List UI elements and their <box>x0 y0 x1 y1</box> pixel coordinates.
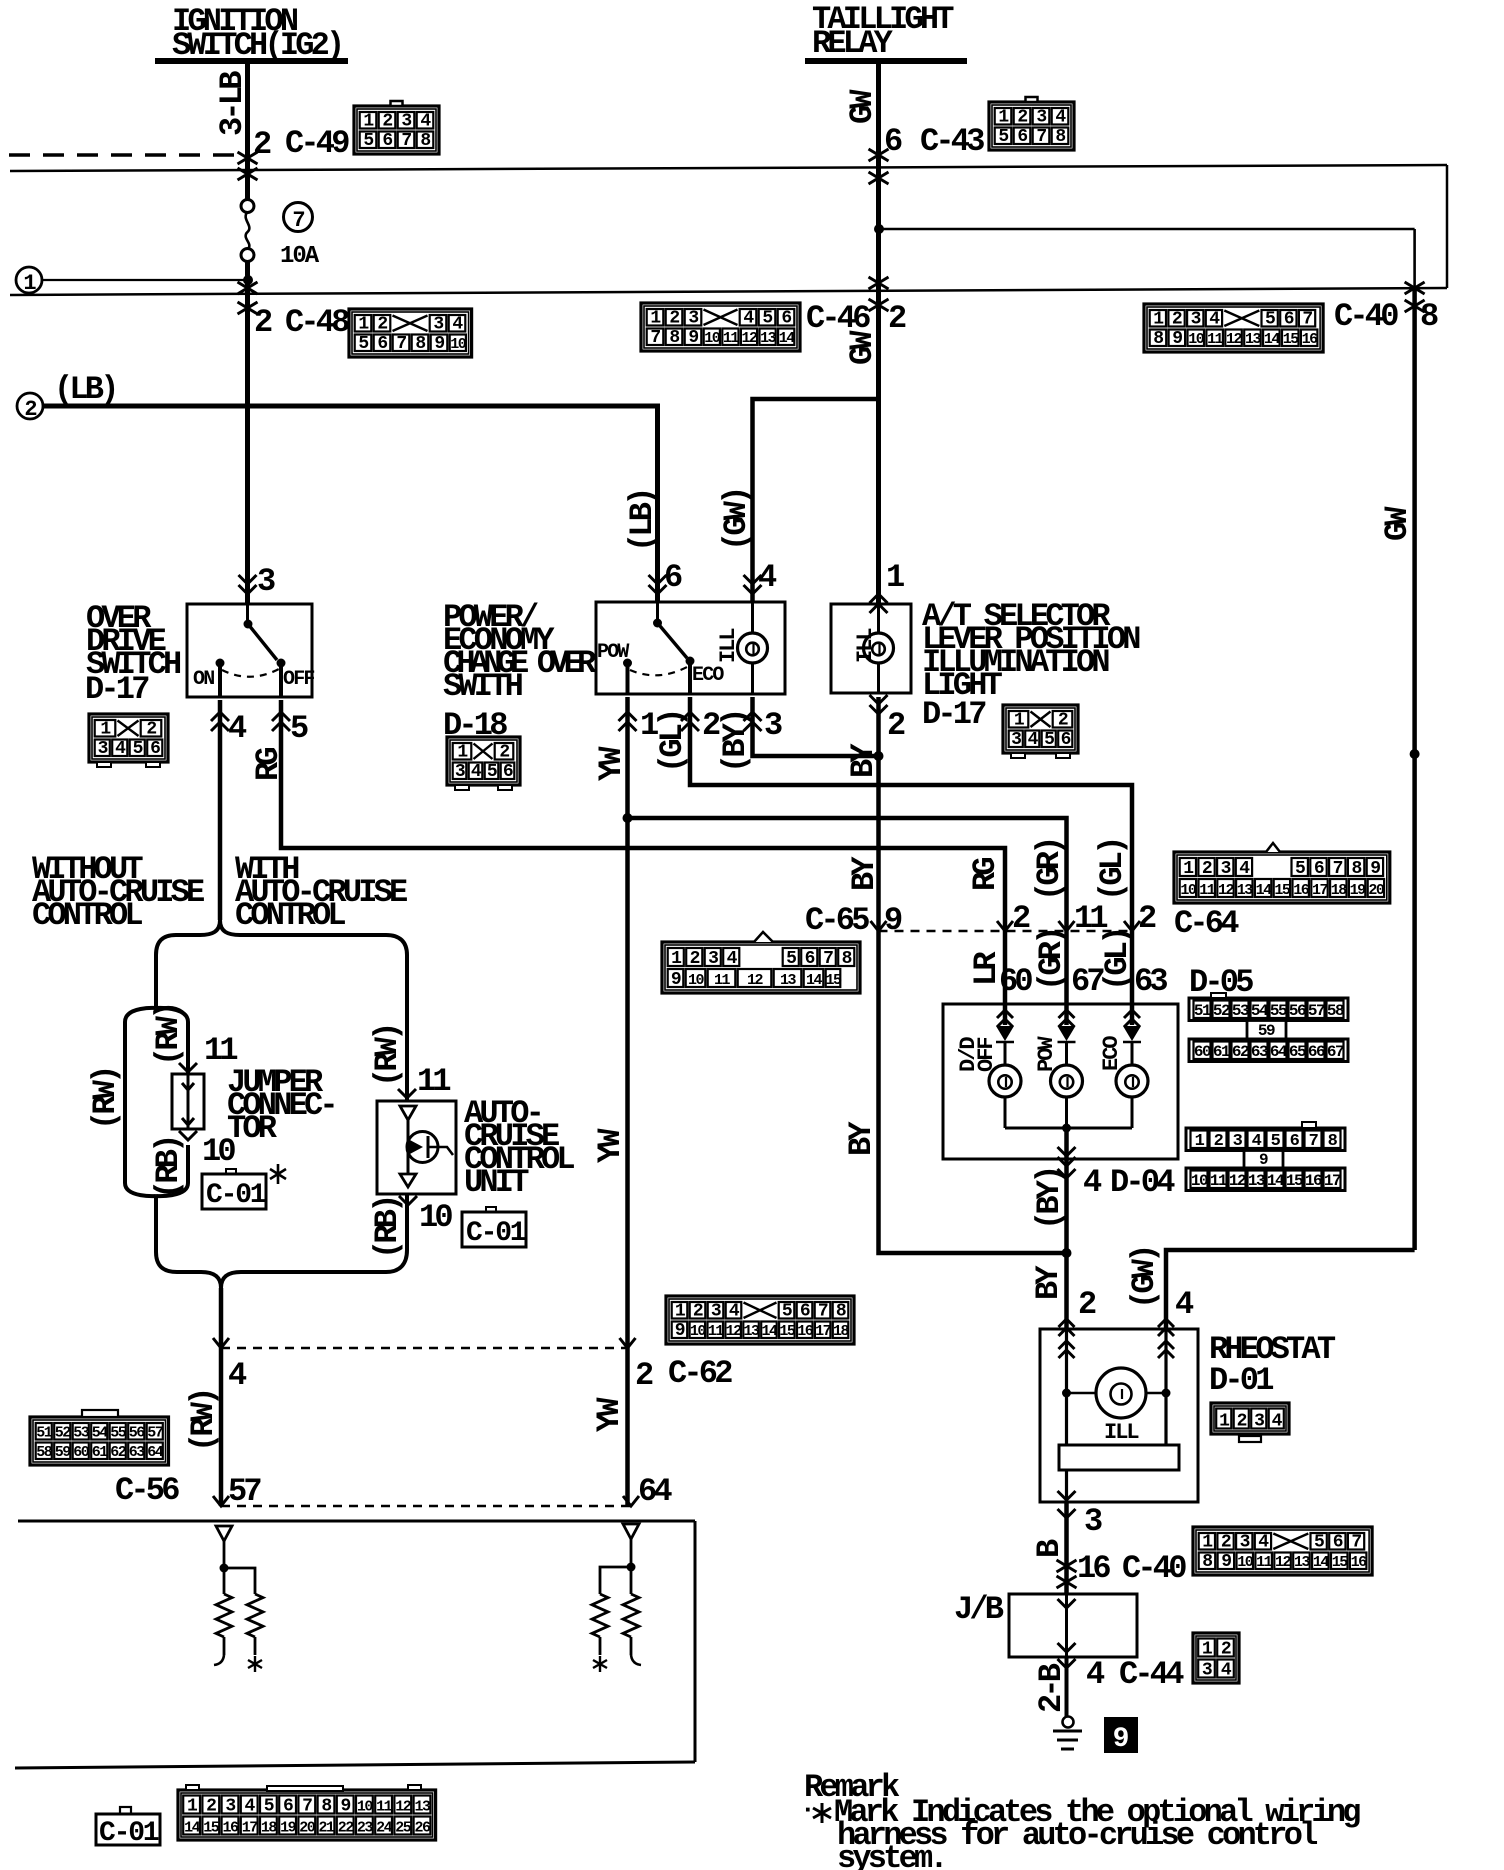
svg-text:3: 3 <box>708 949 718 969</box>
svg-text:2: 2 <box>1172 310 1182 330</box>
svg-text:6: 6 <box>382 131 392 151</box>
wire GL into D-05 <box>1130 931 1135 1025</box>
svg-text:60: 60 <box>1194 1043 1211 1061</box>
svg-text:3: 3 <box>1233 1132 1243 1151</box>
svg-text:9: 9 <box>1113 1724 1130 1755</box>
svg-text:12: 12 <box>395 1799 412 1816</box>
svg-text:11: 11 <box>376 1799 393 1816</box>
svg-text:1: 1 <box>886 559 904 596</box>
svg-text:(BY): (BY) <box>717 711 754 773</box>
connector icon C-43 <box>989 102 1074 150</box>
svg-text:ECO: ECO <box>692 664 724 687</box>
svg-text:63: 63 <box>1134 963 1167 1000</box>
wire GW from taillight relay <box>876 61 881 604</box>
component box C-01 right <box>462 1212 526 1247</box>
svg-text:5: 5 <box>998 127 1008 147</box>
svg-text:8: 8 <box>415 334 425 354</box>
node circle-1 <box>16 267 42 293</box>
svg-text:17: 17 <box>1312 882 1328 899</box>
junction block J/B <box>1009 1594 1137 1657</box>
svg-text:YW: YW <box>592 1128 629 1163</box>
jumper connector box <box>172 1074 204 1129</box>
svg-text:6: 6 <box>781 309 791 329</box>
wire BY to rheostat pin2 <box>1064 1253 1069 1329</box>
overdrive internal wires <box>218 663 222 697</box>
svg-text:5: 5 <box>1295 859 1305 879</box>
svg-text:8: 8 <box>420 131 430 151</box>
svg-text:7: 7 <box>292 208 304 233</box>
svg-text:10: 10 <box>1191 1172 1208 1190</box>
overdrive switch blade <box>246 604 249 624</box>
svg-text:7: 7 <box>1351 1533 1361 1553</box>
wire GW right vertical <box>1412 289 1417 1250</box>
connector icon D-05 pins 51-67 <box>1189 998 1348 1021</box>
svg-text:6: 6 <box>1314 859 1324 879</box>
svg-text:(BY): (BY) <box>1031 1168 1068 1230</box>
svg-text:59: 59 <box>1258 1022 1275 1040</box>
svg-text:3-LB: 3-LB <box>214 71 251 136</box>
svg-text:56: 56 <box>129 1425 146 1442</box>
entry marks pin1 A/T <box>870 594 888 613</box>
svg-text:57: 57 <box>147 1425 163 1442</box>
C-65 crossing arrows <box>871 921 887 931</box>
connector crossing marks C-43 <box>869 149 889 161</box>
svg-text:2: 2 <box>690 949 700 969</box>
svg-text:11: 11 <box>417 1063 450 1100</box>
svg-text:2: 2 <box>1237 1412 1247 1432</box>
svg-text:BY: BY <box>846 856 883 891</box>
rheostat box D-01 <box>1040 1329 1198 1502</box>
svg-text:(LB): (LB) <box>624 490 661 552</box>
svg-text:14: 14 <box>761 1323 778 1340</box>
svg-text:12: 12 <box>726 1323 743 1340</box>
wire merged RW down <box>219 1288 224 1506</box>
svg-text:(RW): (RW) <box>185 1390 222 1452</box>
svg-text:3: 3 <box>433 315 443 335</box>
svg-text:5: 5 <box>133 739 143 759</box>
svg-text:13: 13 <box>760 330 777 347</box>
wire YW from power pin1 <box>625 697 630 1506</box>
connector icon C-48 <box>349 309 472 357</box>
jumper loop left branch <box>125 1008 156 1196</box>
fuse 7 symbol <box>246 165 249 200</box>
dashed connector line C-62 <box>221 1347 628 1350</box>
svg-text:11: 11 <box>1256 1554 1273 1571</box>
svg-text:6: 6 <box>884 123 902 160</box>
connector icon C-65 <box>662 942 860 993</box>
svg-text:54: 54 <box>92 1425 109 1442</box>
svg-text:1: 1 <box>1195 1132 1205 1151</box>
power dashed arc <box>630 667 687 675</box>
svg-text:GW: GW <box>844 89 881 124</box>
svg-text:16: 16 <box>1293 882 1310 899</box>
overdrive contacts ON OFF <box>216 659 225 668</box>
svg-text:ECO: ECO <box>1099 1036 1124 1071</box>
svg-text:7: 7 <box>1036 127 1046 147</box>
svg-text:C-49: C-49 <box>285 125 349 162</box>
svg-text:10: 10 <box>688 972 705 989</box>
svg-text:2: 2 <box>669 309 679 329</box>
svg-text:63: 63 <box>129 1444 146 1461</box>
svg-text:5: 5 <box>290 710 308 747</box>
entry marks pin6 <box>649 575 667 594</box>
wire GW to rheostat pin4 <box>1166 1250 1415 1329</box>
svg-text:14: 14 <box>779 330 796 347</box>
svg-text:60: 60 <box>999 963 1032 1000</box>
svg-text:67: 67 <box>1071 963 1104 1000</box>
svg-text:24: 24 <box>376 1820 393 1837</box>
svg-text:11: 11 <box>714 972 731 989</box>
svg-text:14: 14 <box>1267 1172 1285 1190</box>
svg-text:19: 19 <box>1350 882 1367 899</box>
svg-text:D-04: D-04 <box>1110 1164 1175 1201</box>
connector icon D-18 <box>447 737 520 785</box>
svg-text:57: 57 <box>228 1473 261 1510</box>
svg-text:11: 11 <box>1210 1172 1227 1190</box>
svg-text:6: 6 <box>503 762 513 782</box>
svg-text:C-43: C-43 <box>920 123 984 160</box>
svg-text:15: 15 <box>1332 1554 1349 1571</box>
svg-text:TOR: TOR <box>227 1110 278 1147</box>
wire (BY) branch from power pin3 <box>753 697 879 756</box>
svg-text:64: 64 <box>638 1473 672 1510</box>
svg-text:2: 2 <box>253 126 271 163</box>
svg-text:2: 2 <box>1078 1286 1096 1323</box>
svg-text:2: 2 <box>1058 711 1068 731</box>
fuse number circle 7 <box>284 203 313 232</box>
connector icon D-04 pins 1-17 <box>1186 1128 1345 1151</box>
svg-text:11: 11 <box>1199 882 1216 899</box>
svg-text:15: 15 <box>203 1820 220 1837</box>
svg-text:11: 11 <box>723 330 740 347</box>
svg-text:4: 4 <box>1252 1132 1262 1151</box>
D-05 lamp common bus <box>1005 1127 1132 1130</box>
svg-text:6: 6 <box>1061 730 1071 750</box>
svg-text:3: 3 <box>688 309 698 329</box>
svg-text:16: 16 <box>1351 1554 1368 1571</box>
brace split top <box>156 920 220 1008</box>
svg-text:2: 2 <box>1012 900 1030 937</box>
svg-text:10: 10 <box>1237 1554 1254 1571</box>
svg-text:5: 5 <box>1314 1533 1324 1553</box>
svg-text:CONTROL: CONTROL <box>32 897 142 934</box>
ignition switch terminal bar <box>155 58 348 64</box>
svg-text:9: 9 <box>341 1797 351 1817</box>
rheostat output wire <box>1065 1470 1068 1502</box>
svg-text:16: 16 <box>797 1323 814 1340</box>
svg-text:C-40: C-40 <box>1122 1550 1186 1587</box>
optional star mark left <box>270 1164 286 1184</box>
svg-text:12: 12 <box>1226 331 1243 348</box>
svg-text:7: 7 <box>650 328 660 348</box>
svg-text:7: 7 <box>1309 1132 1319 1151</box>
svg-text:9: 9 <box>1370 859 1380 879</box>
svg-text:3: 3 <box>1240 1533 1250 1553</box>
wire pin5 RG to right <box>281 700 1005 931</box>
svg-text:3: 3 <box>711 1302 721 1322</box>
svg-text:5: 5 <box>363 131 373 151</box>
svg-text:2-B: 2-B <box>1033 1663 1070 1713</box>
svg-text:66: 66 <box>1308 1043 1325 1061</box>
svg-text:1: 1 <box>23 271 36 296</box>
svg-text:2: 2 <box>24 397 36 422</box>
svg-text:6: 6 <box>800 1302 810 1322</box>
svg-text:(GW): (GW) <box>1126 1247 1163 1309</box>
connector icon C-49 <box>354 106 439 154</box>
svg-text:16: 16 <box>1305 1172 1322 1190</box>
connector icon C-01 <box>178 1790 436 1840</box>
svg-text:2: 2 <box>1138 900 1156 937</box>
brace merge bottom <box>156 1196 221 1288</box>
svg-text:62: 62 <box>110 1444 127 1461</box>
svg-text:2: 2 <box>693 1302 703 1322</box>
svg-text:2: 2 <box>499 743 509 763</box>
power switch contacts <box>623 659 632 668</box>
svg-text:13: 13 <box>744 1323 761 1340</box>
svg-text:7: 7 <box>1333 859 1343 879</box>
wire GW branch to pin4 power switch <box>753 399 880 602</box>
wire from circle-1 to fuse junction <box>42 279 248 281</box>
svg-text:(RB): (RB) <box>150 1137 187 1199</box>
svg-text:8: 8 <box>321 1797 331 1817</box>
power/economy switch box D-18 <box>596 602 785 694</box>
svg-text:5: 5 <box>1265 310 1275 330</box>
node circle-2 (LB) <box>17 393 43 419</box>
connector icon D-17 A/T <box>1003 705 1078 753</box>
svg-text:58: 58 <box>1327 1002 1344 1020</box>
svg-text:9: 9 <box>675 1321 685 1341</box>
svg-text:11: 11 <box>1207 331 1224 348</box>
svg-text:3: 3 <box>764 707 782 744</box>
svg-text:2: 2 <box>146 720 156 740</box>
wire BY down from A/T <box>876 697 881 931</box>
remark text <box>800 1769 1360 1870</box>
svg-text:8: 8 <box>1153 329 1163 349</box>
svg-text:6: 6 <box>283 1797 293 1817</box>
svg-text:54: 54 <box>1251 1002 1269 1020</box>
svg-text:51: 51 <box>36 1425 53 1442</box>
svg-text:26: 26 <box>414 1820 431 1837</box>
svg-text:9: 9 <box>1172 329 1182 349</box>
svg-text:7: 7 <box>1302 310 1312 330</box>
svg-text:8: 8 <box>1420 298 1438 335</box>
junction dot BY/D-04 <box>1062 1248 1072 1258</box>
exit marks pin2 A/T <box>870 695 888 714</box>
svg-text:5: 5 <box>358 334 368 354</box>
svg-text:53: 53 <box>73 1425 90 1442</box>
svg-text:55: 55 <box>1270 1002 1287 1020</box>
wire LR into D-05 <box>1003 931 1008 1025</box>
svg-text:64: 64 <box>1270 1043 1288 1061</box>
svg-text:8: 8 <box>669 328 679 348</box>
svg-text:5: 5 <box>487 762 497 782</box>
svg-text:6: 6 <box>1290 1132 1300 1151</box>
svg-text:BY: BY <box>843 1121 880 1156</box>
svg-text:6: 6 <box>1333 1533 1343 1553</box>
svg-text:(GL): (GL) <box>654 711 691 773</box>
svg-text:16: 16 <box>222 1820 239 1837</box>
svg-text:2: 2 <box>635 1357 653 1394</box>
svg-text:5: 5 <box>762 309 772 329</box>
svg-text:C-65: C-65 <box>805 902 869 939</box>
svg-text:3: 3 <box>1221 859 1231 879</box>
connector icon C-40 bottom <box>1193 1527 1372 1575</box>
svg-text:52: 52 <box>1213 1002 1230 1020</box>
power switch blade <box>656 602 659 623</box>
overdrive switch box D-17 <box>187 604 312 697</box>
wire (GR) branch <box>628 818 1067 931</box>
svg-text:POW: POW <box>597 641 629 664</box>
power internal wires <box>626 663 630 694</box>
connector icon C-44 <box>1193 1633 1239 1683</box>
component box C-01 bottom <box>96 1814 160 1845</box>
overdrive dashed arc <box>222 669 279 677</box>
svg-text:14: 14 <box>1256 882 1273 899</box>
svg-text:15: 15 <box>779 1323 796 1340</box>
svg-text:23: 23 <box>357 1820 374 1837</box>
svg-text:C-01: C-01 <box>206 1180 266 1211</box>
svg-text:61: 61 <box>1213 1043 1230 1061</box>
svg-text:10: 10 <box>419 1199 452 1236</box>
svg-text:6: 6 <box>377 334 387 354</box>
svg-text:(RW): (RW) <box>87 1068 124 1130</box>
svg-text:14: 14 <box>1313 1554 1330 1571</box>
svg-text:12: 12 <box>1229 1172 1246 1190</box>
svg-text:2: 2 <box>206 1797 216 1817</box>
auto-cruise internal symbol <box>400 1106 416 1120</box>
wire right branch down <box>405 1194 409 1250</box>
svg-text:6: 6 <box>150 739 160 759</box>
svg-text:3: 3 <box>1036 108 1046 128</box>
svg-text:C-40: C-40 <box>1334 298 1398 335</box>
junction dot fuse/circle-1 <box>243 275 253 285</box>
svg-text:60: 60 <box>73 1444 90 1461</box>
dashed connector line C-56 <box>221 1505 631 1508</box>
svg-text:67: 67 <box>1327 1043 1344 1061</box>
svg-text:8: 8 <box>1328 1132 1338 1151</box>
svg-text:D-17: D-17 <box>85 671 149 708</box>
svg-text:9: 9 <box>434 334 444 354</box>
svg-text:25: 25 <box>395 1820 412 1837</box>
svg-text:13: 13 <box>1294 1554 1311 1571</box>
svg-text:9: 9 <box>671 970 681 990</box>
svg-text:(RW): (RW) <box>150 1004 187 1066</box>
svg-text:8: 8 <box>1202 1552 1212 1572</box>
svg-text:63: 63 <box>1251 1043 1268 1061</box>
svg-text:(RB): (RB) <box>369 1197 406 1259</box>
svg-text:8: 8 <box>836 1302 846 1322</box>
svg-text:7: 7 <box>823 949 833 969</box>
indicator box D-05 <box>943 1004 1178 1159</box>
svg-text:(GL): (GL) <box>1094 839 1131 901</box>
ECU box outline <box>18 1520 695 1523</box>
entry marks pin4 <box>744 575 762 594</box>
svg-text:5: 5 <box>782 1302 792 1322</box>
svg-text:(GW): (GW) <box>718 489 755 551</box>
svg-text:(GL): (GL) <box>1099 929 1136 991</box>
svg-text:5: 5 <box>264 1797 274 1817</box>
svg-text:22: 22 <box>338 1820 355 1837</box>
svg-text:14: 14 <box>184 1820 201 1837</box>
svg-text:(RW): (RW) <box>369 1025 406 1087</box>
svg-text:17: 17 <box>1324 1172 1341 1190</box>
taillight relay terminal bar <box>805 58 967 64</box>
svg-text:BY: BY <box>1030 1265 1067 1300</box>
svg-text:10: 10 <box>690 1323 707 1340</box>
svg-text:2: 2 <box>887 707 905 744</box>
wire 3-LB from ignition switch <box>245 61 250 199</box>
junction dot GW branch to C-40 <box>874 224 884 234</box>
connector icon D-01 <box>1211 1403 1289 1434</box>
svg-text:6: 6 <box>1017 127 1027 147</box>
svg-text:3: 3 <box>257 563 275 600</box>
page reference box 9 <box>1104 1717 1138 1753</box>
svg-text:58: 58 <box>36 1444 53 1461</box>
svg-text:12: 12 <box>1275 1554 1292 1571</box>
svg-text:10A: 10A <box>280 243 320 270</box>
svg-text:16: 16 <box>1302 331 1319 348</box>
svg-text:7: 7 <box>396 334 406 354</box>
svg-text:19: 19 <box>280 1820 297 1837</box>
svg-text:8: 8 <box>842 949 852 969</box>
svg-text:20: 20 <box>1368 882 1385 899</box>
svg-text:9: 9 <box>1259 1151 1268 1169</box>
svg-text:13: 13 <box>1237 882 1254 899</box>
connector crossing marks C-48 <box>238 282 258 294</box>
svg-text:·: · <box>800 1795 812 1825</box>
svg-text:C-46: C-46 <box>806 300 870 337</box>
svg-text:61: 61 <box>92 1444 109 1461</box>
connector crossing marks C-40 on right GW <box>1405 282 1425 294</box>
svg-text:RG: RG <box>967 858 1004 891</box>
svg-text:RELAY: RELAY <box>812 25 894 62</box>
svg-text:51: 51 <box>1194 1002 1211 1020</box>
connector icon D-17 overdrive <box>89 714 168 762</box>
svg-text:3: 3 <box>1254 1412 1264 1432</box>
svg-text:7: 7 <box>302 1797 312 1817</box>
svg-text:3: 3 <box>1202 1661 1212 1681</box>
svg-text:9: 9 <box>1221 1552 1231 1572</box>
svg-text:15: 15 <box>1274 882 1291 899</box>
wire to ground <box>1065 1657 1069 1717</box>
svg-text:15: 15 <box>1283 331 1300 348</box>
connector icon C-62 <box>666 1296 854 1344</box>
svg-text:15: 15 <box>825 972 842 989</box>
harness band line top <box>10 165 1447 171</box>
diode at POW <box>1058 1026 1076 1041</box>
svg-text:9: 9 <box>884 902 902 939</box>
svg-text:GW: GW <box>844 330 881 365</box>
svg-text:56: 56 <box>1289 1002 1306 1020</box>
indicator lamps D-05 <box>1004 1042 1007 1065</box>
svg-text:YW: YW <box>593 746 630 781</box>
svg-text:C-62: C-62 <box>668 1355 732 1392</box>
svg-text:8: 8 <box>1351 859 1361 879</box>
svg-text:13: 13 <box>414 1799 431 1816</box>
svg-text:14: 14 <box>1264 331 1281 348</box>
svg-text:system.: system. <box>837 1840 945 1870</box>
svg-text:SWITH: SWITH <box>443 668 523 705</box>
wire GW branch to right side C-40 8 <box>879 228 1415 231</box>
svg-text:14: 14 <box>806 972 823 989</box>
svg-text:J/B: J/B <box>954 1591 1004 1628</box>
svg-text:10: 10 <box>450 336 467 353</box>
svg-text:5: 5 <box>1271 1132 1281 1151</box>
exit auto-cruise <box>399 1196 417 1205</box>
auto-cruise control unit box <box>377 1101 456 1194</box>
junction dot on GW right <box>1410 749 1420 759</box>
harness band line bottom <box>10 288 1447 295</box>
